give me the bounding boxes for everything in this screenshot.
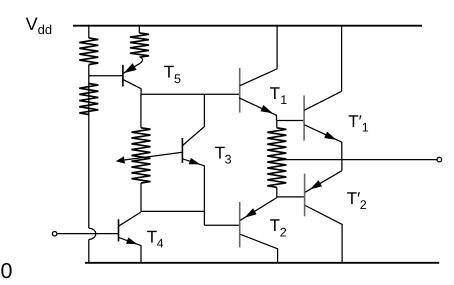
- svg-text:0: 0: [1, 259, 13, 283]
